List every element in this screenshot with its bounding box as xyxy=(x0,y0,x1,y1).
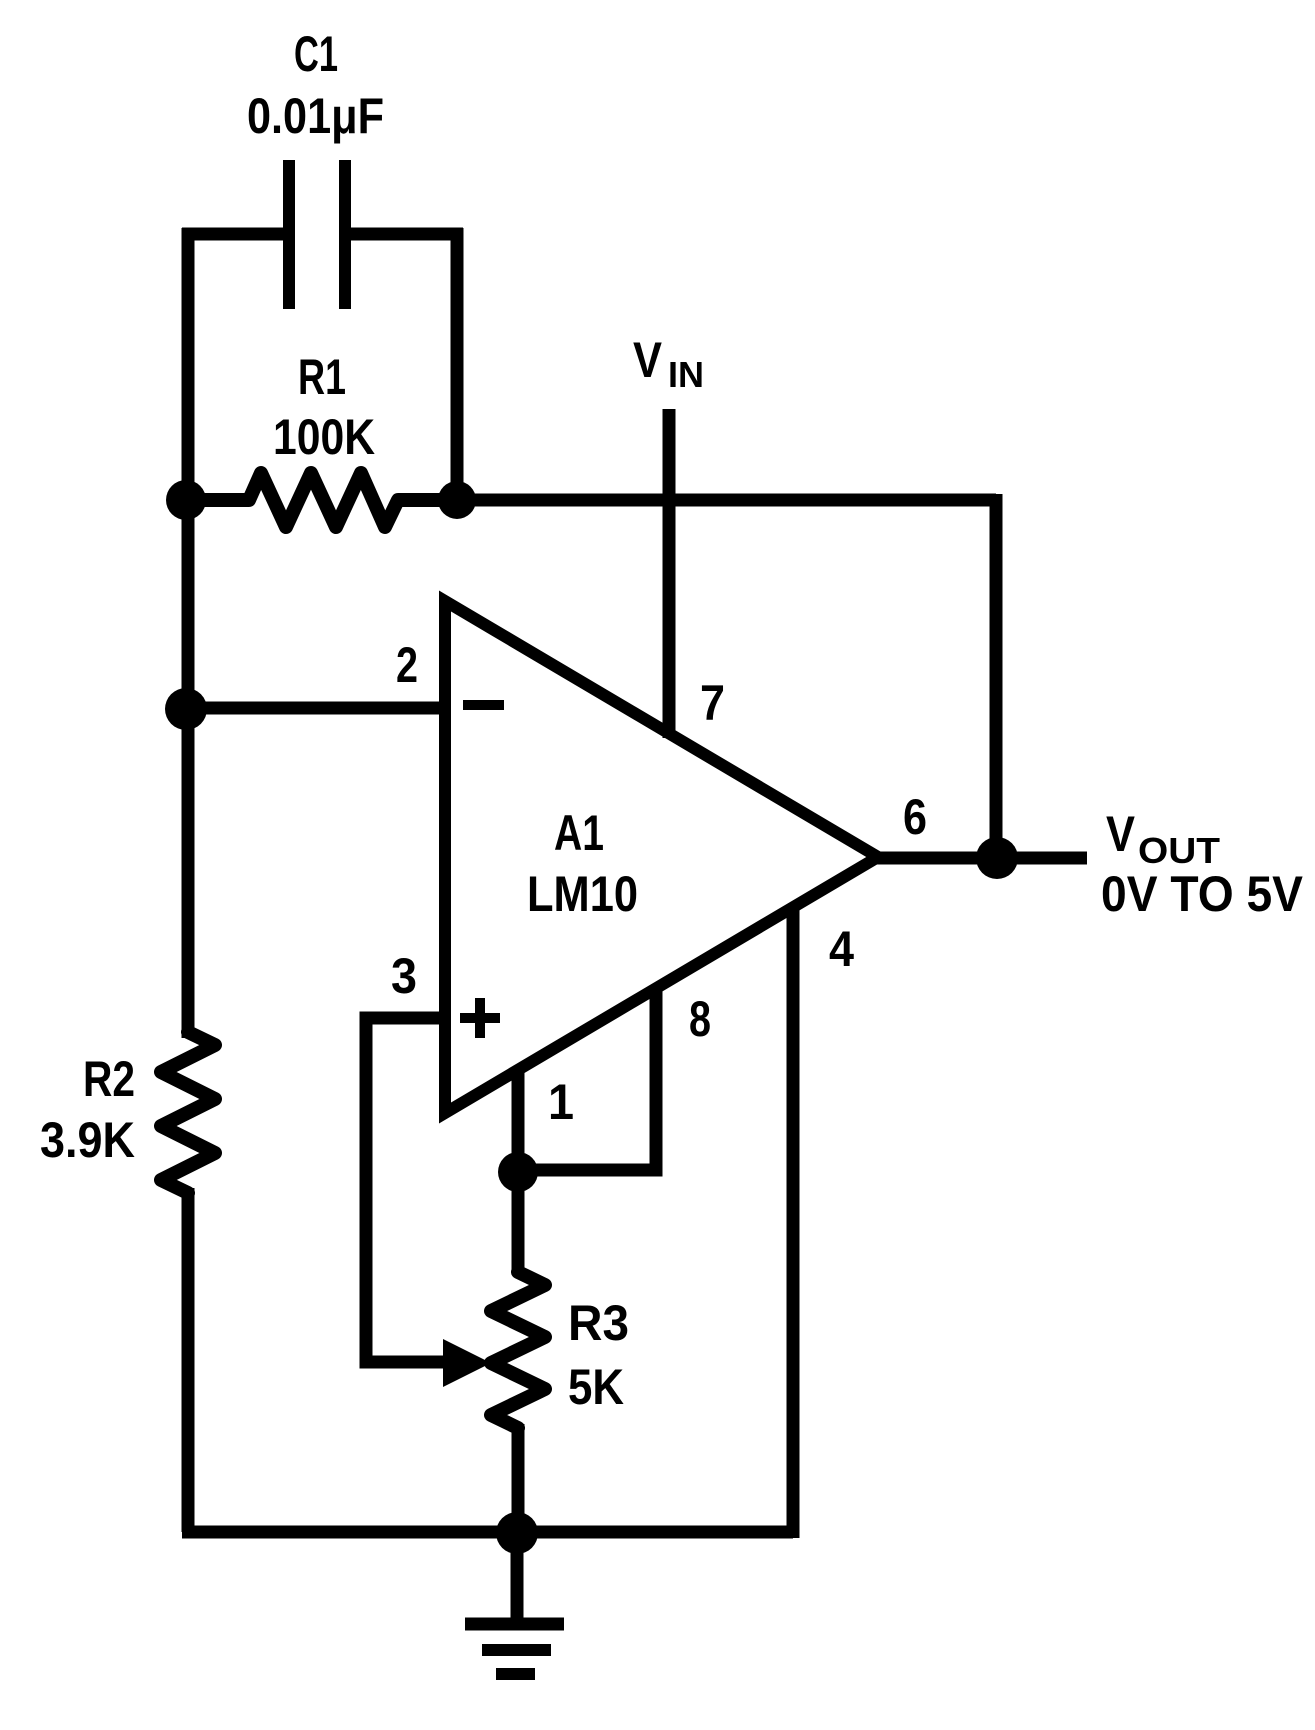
op-amp A1 LM10 triangle xyxy=(445,601,878,1113)
minus input symbol xyxy=(463,700,504,710)
svg-text:IN: IN xyxy=(668,354,704,395)
wire VIN vertical to pin 7 xyxy=(663,409,676,738)
svg-text:R1: R1 xyxy=(298,349,346,405)
svg-text:6: 6 xyxy=(903,789,927,845)
svg-text:3: 3 xyxy=(391,948,417,1004)
wire C1 loop right horizontal xyxy=(349,228,463,241)
wire pin 3 loop xyxy=(366,1018,448,1362)
resistor R1 xyxy=(186,473,457,527)
node ground junction xyxy=(496,1512,538,1554)
ground bar 1 xyxy=(465,1618,564,1631)
potentiometer R3 xyxy=(491,1272,545,1428)
wire C1 loop left vertical (left rail top) xyxy=(182,228,195,1038)
node R1 left junction xyxy=(166,480,206,520)
svg-text:LM10: LM10 xyxy=(527,866,638,922)
svg-text:8: 8 xyxy=(689,991,711,1047)
wire output horizontal xyxy=(875,852,1087,865)
node output VOUT junction xyxy=(976,837,1018,879)
wire main horizontal to right rail xyxy=(457,494,996,507)
wire pin 4 vertical xyxy=(787,909,800,1538)
svg-text:1: 1 xyxy=(548,1074,574,1130)
wire pin 8 xyxy=(518,987,656,1170)
wire bottom horizontal xyxy=(182,1526,793,1539)
svg-text:2: 2 xyxy=(396,637,418,693)
svg-text:V: V xyxy=(633,332,663,388)
node pin 2 junction xyxy=(165,688,207,730)
ground stem xyxy=(511,1533,524,1624)
node pin 1 / R3 junction xyxy=(498,1152,538,1192)
arrowhead R3 wiper xyxy=(443,1339,491,1387)
svg-text:R2: R2 xyxy=(83,1051,135,1107)
svg-text:OUT: OUT xyxy=(1138,830,1220,871)
resistor R2 xyxy=(161,1032,215,1193)
capacitor C1 xyxy=(289,160,345,309)
wire left rail bottom xyxy=(182,1188,195,1532)
svg-text:7: 7 xyxy=(700,675,725,731)
svg-text:C1: C1 xyxy=(294,26,338,82)
wire right rail vertical xyxy=(990,494,1003,858)
wire pin 1 vertical xyxy=(512,1068,525,1275)
svg-text:0V TO 5V: 0V TO 5V xyxy=(1101,866,1304,922)
svg-text:5K: 5K xyxy=(568,1359,624,1415)
wire C1 loop left horizontal xyxy=(182,228,285,241)
svg-text:A1: A1 xyxy=(554,805,604,861)
ground bar 3 xyxy=(496,1668,535,1680)
wire C1 loop right vertical xyxy=(451,228,464,500)
svg-text:R3: R3 xyxy=(568,1295,629,1351)
svg-text:3.9K: 3.9K xyxy=(40,1112,135,1168)
svg-text:100K: 100K xyxy=(273,409,375,465)
node R1 right junction xyxy=(438,481,476,519)
ground bar 2 xyxy=(482,1650,551,1674)
svg-text:V: V xyxy=(1106,806,1136,862)
wire pin 2 horizontal xyxy=(188,702,445,715)
svg-text:4: 4 xyxy=(829,921,854,977)
svg-text:0.01μF: 0.01μF xyxy=(247,88,384,144)
wire R3 bottom lead xyxy=(512,1424,525,1532)
plus input symbol xyxy=(460,1013,500,1023)
